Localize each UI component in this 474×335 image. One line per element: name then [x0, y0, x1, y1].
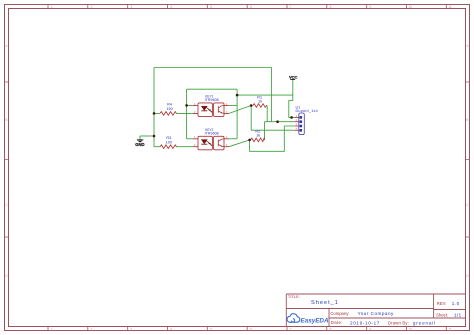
svg-text:3: 3 [131, 5, 133, 9]
junction dot R2 left node [248, 139, 251, 142]
svg-text:Sheet_1: Sheet_1 [311, 300, 339, 306]
svg-text:8: 8 [330, 328, 332, 332]
svg-text:7: 7 [290, 5, 292, 9]
svg-text:1k: 1k [256, 133, 260, 137]
svg-text:8: 8 [330, 5, 332, 9]
svg-text:Company:: Company: [330, 311, 349, 316]
wire R4 left lead [154, 112, 160, 114]
svg-text:2019-10-17: 2019-10-17 [350, 320, 380, 325]
junction dot pin1 VCC [290, 116, 293, 119]
svg-text:10: 10 [408, 5, 412, 9]
svg-text:EasyEDA: EasyEDA [301, 317, 329, 324]
svg-text:ITR9608: ITR9608 [205, 132, 219, 136]
frame column numbers top [51, 5, 452, 9]
resistor R3 [160, 136, 177, 148]
ground symbol GND [135, 136, 144, 147]
svg-text:GND: GND [135, 142, 144, 147]
wire VCC horizontal [237, 94, 293, 96]
wire R2 right to GND row [264, 122, 266, 140]
svg-text:Drawn By:: Drawn By: [388, 320, 409, 325]
wire KEY1 emitter diagonal [229, 106, 251, 114]
junction dot KEY1 anode [185, 104, 188, 107]
svg-text:VCC: VCC [289, 74, 298, 79]
wire OUT1 vertical [250, 106, 252, 131]
power symbol VCC [289, 74, 298, 79]
frame ruler ticks left [5, 82, 9, 237]
svg-text:100: 100 [166, 141, 172, 145]
svg-text:3: 3 [131, 328, 133, 332]
svg-text:6: 6 [250, 5, 252, 9]
wire R3 left lead [154, 146, 160, 148]
svg-text:1k: 1k [258, 100, 262, 104]
wire KEY2 anode stub [187, 138, 193, 140]
junction dot GND stub [153, 135, 156, 138]
junction dot pin2 wire [276, 120, 279, 123]
svg-text:2: 2 [91, 328, 93, 332]
frame ruler ticks top [48, 5, 446, 9]
resistor R1 [253, 96, 267, 108]
wire R3 right lead [177, 146, 194, 148]
svg-text:7: 7 [290, 328, 292, 332]
wire pin2 horizontal GND [265, 121, 295, 123]
frame ruler ticks right [466, 82, 470, 237]
title block outline [286, 294, 465, 327]
opto-interrupter KEY2 [193, 128, 229, 150]
wire GND left vertical rail [153, 68, 155, 147]
wire VCC jog to pin1 [289, 95, 295, 117]
frame column numbers bottom [51, 328, 452, 332]
svg-text:9: 9 [370, 328, 372, 332]
resistor R4 [160, 103, 177, 116]
svg-text:ITR9608: ITR9608 [205, 98, 219, 102]
wire KEY2 collector stub [229, 138, 237, 140]
wire OUT2 path to pin3 [250, 126, 295, 151]
svg-text:Date:: Date: [331, 320, 343, 325]
svg-text:5: 5 [210, 328, 212, 332]
junction dot VCC loop [236, 94, 239, 97]
svg-text:11: 11 [448, 5, 452, 9]
svg-text:4: 4 [170, 5, 172, 9]
junction dot R4-GND rail [153, 112, 156, 115]
opto-interrupter KEY1 [193, 95, 229, 117]
svg-text:Your Company: Your Company [358, 311, 394, 316]
wire opto loop right vertical [236, 89, 238, 139]
wire R1 right to GND row [266, 106, 268, 122]
resistor R2 [251, 130, 265, 142]
svg-text:R4: R4 [167, 103, 172, 107]
svg-text:150: 150 [166, 107, 172, 111]
wire KEY2 emitter diagonal [229, 140, 250, 147]
svg-text:11: 11 [448, 328, 452, 332]
connector U1 Dupont_1x4 [295, 105, 318, 134]
frame row letters left [5, 44, 8, 278]
svg-text:1/1: 1/1 [454, 313, 462, 318]
svg-text:5: 5 [210, 5, 212, 9]
svg-text:greenail: greenail [413, 321, 436, 326]
wire KEY1 anode stub [187, 104, 193, 106]
svg-text:2: 2 [91, 5, 93, 9]
wire opto loop left vertical [186, 89, 188, 139]
svg-text:1.0: 1.0 [452, 301, 460, 306]
wire GND stub to ground symbol [140, 135, 154, 137]
wire GND top rail [154, 67, 272, 69]
wire OUT1 to pin4 [251, 129, 295, 131]
svg-text:REV:: REV: [437, 301, 447, 306]
wire opto loop top [187, 88, 238, 90]
svg-text:TITLE:: TITLE: [288, 294, 300, 299]
svg-text:1: 1 [51, 5, 53, 9]
svg-text:B: B [5, 118, 7, 122]
frame row letters right [466, 44, 469, 278]
wire GND right vertical to pin2 row [271, 68, 273, 122]
svg-text:10: 10 [408, 328, 412, 332]
EasyEDA logo cloud [287, 314, 300, 323]
svg-text:Sheet:: Sheet: [436, 312, 448, 317]
frame ruler ticks bottom [48, 327, 446, 331]
wire KEY1 collector stub [229, 104, 237, 106]
svg-text:6: 6 [250, 328, 252, 332]
svg-text:9: 9 [370, 5, 372, 9]
junction dot R1 left node [250, 104, 253, 107]
wire R4 right lead [177, 112, 194, 114]
svg-text:1: 1 [51, 328, 53, 332]
svg-text:Dupont_1x4: Dupont_1x4 [296, 109, 318, 113]
wire VCC stem [292, 79, 294, 95]
svg-text:4: 4 [170, 328, 172, 332]
svg-text:B: B [466, 118, 468, 122]
